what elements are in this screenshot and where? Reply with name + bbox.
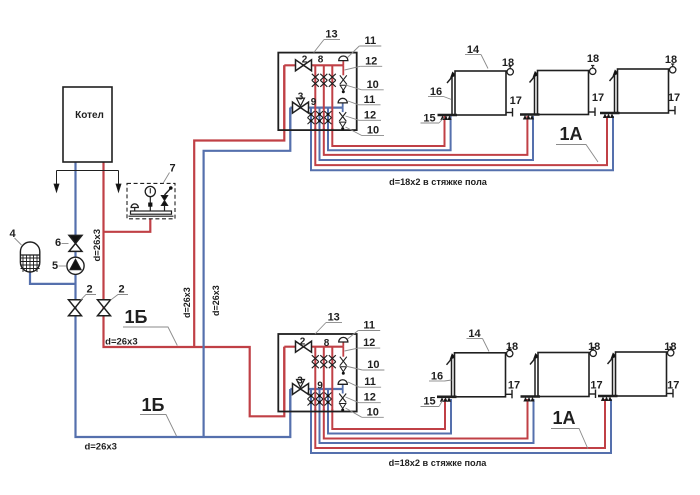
svg-text:11: 11 [364, 35, 376, 47]
svg-text:Котел: Котел [75, 110, 104, 121]
svg-text:18: 18 [506, 341, 518, 353]
svg-text:4: 4 [9, 228, 16, 240]
svg-text:13: 13 [325, 29, 337, 41]
svg-text:18: 18 [665, 54, 677, 66]
svg-text:2: 2 [86, 284, 92, 296]
svg-text:15: 15 [423, 396, 435, 408]
svg-text:18: 18 [587, 53, 599, 65]
svg-text:3: 3 [297, 376, 303, 387]
svg-text:3: 3 [298, 92, 304, 103]
svg-text:9: 9 [317, 381, 323, 392]
svg-text:11: 11 [364, 94, 376, 106]
svg-text:2: 2 [302, 55, 308, 66]
svg-text:12: 12 [364, 109, 376, 121]
svg-text:10: 10 [367, 125, 379, 137]
svg-text:17: 17 [510, 95, 522, 107]
svg-text:17: 17 [592, 92, 604, 104]
svg-text:5: 5 [52, 260, 58, 272]
svg-text:12: 12 [365, 55, 377, 67]
svg-text:11: 11 [364, 376, 376, 388]
svg-text:12: 12 [364, 392, 376, 404]
svg-text:6: 6 [55, 237, 61, 249]
svg-text:d=18x2 в стяжке пола: d=18x2 в стяжке пола [389, 177, 488, 187]
svg-text:1Б: 1Б [142, 395, 165, 415]
svg-text:1А: 1А [559, 124, 582, 144]
svg-text:11: 11 [363, 320, 375, 332]
svg-text:2: 2 [118, 284, 124, 296]
svg-text:10: 10 [367, 359, 379, 371]
svg-text:18: 18 [664, 341, 676, 353]
svg-text:2: 2 [300, 337, 306, 348]
svg-text:17: 17 [508, 380, 520, 392]
svg-text:12: 12 [363, 337, 375, 349]
svg-text:d=26x3: d=26x3 [182, 287, 192, 318]
svg-text:17: 17 [590, 380, 602, 392]
svg-text:1Б: 1Б [125, 307, 148, 327]
svg-text:d=26x3: d=26x3 [92, 229, 103, 262]
svg-text:7: 7 [169, 163, 175, 175]
svg-text:8: 8 [318, 55, 324, 66]
svg-text:9: 9 [311, 97, 317, 108]
svg-text:17: 17 [668, 92, 680, 104]
svg-text:d=26x3: d=26x3 [84, 442, 117, 453]
svg-text:d=26x3: d=26x3 [105, 337, 138, 348]
svg-text:10: 10 [367, 79, 379, 91]
svg-text:8: 8 [324, 338, 330, 349]
svg-text:d=26x3: d=26x3 [211, 285, 221, 316]
svg-text:13: 13 [328, 312, 340, 324]
svg-text:10: 10 [367, 406, 379, 418]
svg-text:18: 18 [588, 341, 600, 353]
svg-text:17: 17 [667, 380, 679, 392]
svg-text:d=18x2 в стяжке пола: d=18x2 в стяжке пола [389, 458, 488, 468]
svg-text:1А: 1А [552, 408, 575, 428]
svg-text:18: 18 [502, 57, 514, 69]
